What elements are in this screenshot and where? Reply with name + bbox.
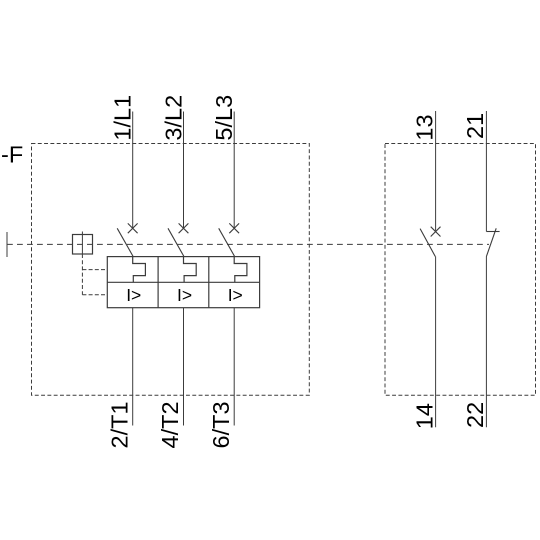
pole 1 contact point X [128, 223, 138, 233]
pole 2 contact point X [179, 223, 189, 233]
pole 3 load wire [233, 308, 235, 426]
trip linkage dashed vertical [81, 254, 83, 295]
operator square [73, 235, 93, 255]
pole 1 load wire [132, 308, 134, 426]
svg-text:2/T1: 2/T1 [106, 401, 132, 448]
pole 3 contact blade [219, 228, 235, 256]
trip unit divider pole2/3 [208, 257, 210, 308]
pole 2 load wire [183, 308, 185, 426]
aux NO contact point X [431, 227, 441, 237]
pole 3 contact point X [229, 223, 239, 233]
manual operator terminal stroke [6, 232, 8, 257]
aux NC contact stop bar [486, 231, 499, 233]
pole 3 thermal overload element [234, 257, 247, 283]
mechanical linkage dashed line [7, 243, 489, 245]
pole 3 supply wire [233, 112, 235, 228]
svg-text:I>: I> [177, 285, 192, 305]
pole 1 supply wire [132, 112, 134, 228]
pole 1 contact blade [117, 228, 133, 256]
trip unit outer box [107, 257, 259, 308]
aux NO contact 13 upper wire [435, 111, 437, 231]
pole 2 contact blade [168, 228, 184, 256]
svg-text:21: 21 [462, 113, 488, 139]
aux NC contact 22 lower wire [485, 257, 487, 428]
pole 2 supply wire [183, 112, 185, 228]
trip unit middle divider [107, 281, 259, 283]
svg-text:3/L2: 3/L2 [160, 95, 186, 141]
svg-text:6/T3: 6/T3 [208, 401, 234, 448]
breaker enclosure dashed box [32, 144, 310, 396]
pole 1 thermal overload element [133, 257, 146, 283]
svg-text:-F: -F [1, 141, 23, 167]
aux contact block dashed box [385, 144, 536, 396]
svg-text:I>: I> [126, 285, 141, 305]
svg-text:14: 14 [412, 403, 438, 429]
svg-text:13: 13 [411, 114, 437, 140]
aux NC contact 21 upper wire [485, 111, 487, 232]
svg-text:5/L3: 5/L3 [211, 95, 237, 141]
operator square center wire [81, 232, 83, 255]
trip linkage dashed horizontal to thermal release [82, 269, 107, 271]
aux NC contact blade [486, 228, 496, 256]
svg-text:1/L1: 1/L1 [110, 95, 136, 141]
pole 2 thermal overload element [184, 257, 197, 283]
svg-text:4/T2: 4/T2 [157, 401, 183, 448]
svg-text:22: 22 [462, 402, 488, 428]
trip linkage dashed horizontal to magnetic release [82, 294, 107, 296]
aux NO contact 14 lower wire [435, 257, 437, 428]
aux NO contact blade [420, 229, 435, 257]
svg-text:I>: I> [228, 285, 243, 305]
trip unit divider pole1/2 [157, 257, 159, 308]
